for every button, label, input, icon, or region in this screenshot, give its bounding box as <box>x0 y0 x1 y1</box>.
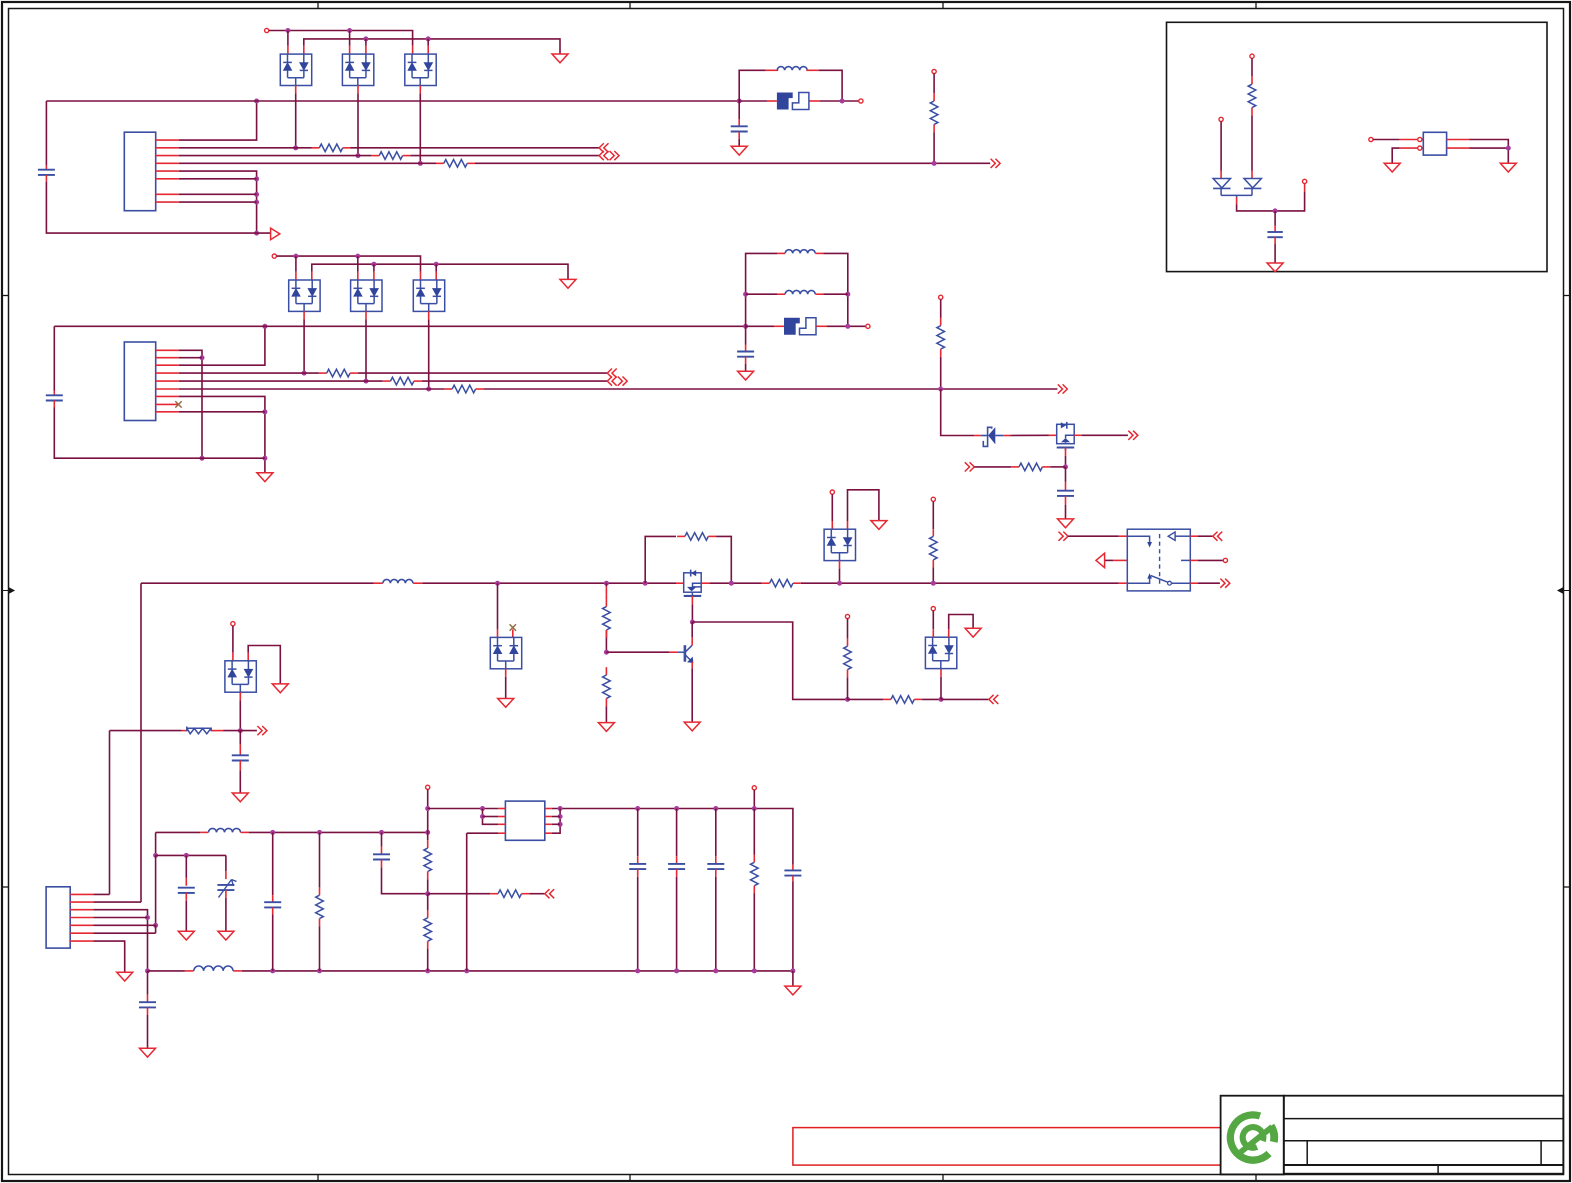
zone ticks <box>317 2 319 9</box>
pin stub <box>767 100 777 102</box>
wire <box>140 583 142 902</box>
junction <box>425 806 430 811</box>
wire <box>605 630 607 652</box>
wire <box>606 651 669 653</box>
wire net 3v3 <box>552 809 793 865</box>
wire <box>427 879 429 893</box>
wire <box>179 101 257 140</box>
wire <box>357 93 359 155</box>
wire <box>427 949 429 971</box>
wire <box>46 182 270 233</box>
wire <box>483 816 499 818</box>
wire <box>715 809 717 857</box>
wire <box>225 855 227 871</box>
wire <box>93 941 124 972</box>
wire main bus <box>141 582 374 584</box>
wire <box>277 256 421 272</box>
port <box>607 377 616 386</box>
pin stub J1 pin1 <box>156 139 179 141</box>
wire <box>745 326 747 344</box>
capacitor C bank <box>629 863 646 865</box>
wire <box>1251 58 1253 76</box>
wire <box>155 925 157 933</box>
inductor L1 <box>777 67 807 71</box>
pin stub <box>1274 226 1276 232</box>
pin stub <box>715 869 717 877</box>
wire <box>109 731 111 895</box>
resistor R3 <box>436 162 444 164</box>
pin stub J3 pin4 <box>70 917 93 919</box>
pin stub <box>365 46 367 54</box>
pin <box>1219 117 1223 121</box>
junction <box>145 915 150 920</box>
wire net A1b <box>351 147 600 149</box>
pin stub <box>295 272 297 280</box>
pin stub <box>1190 559 1198 561</box>
wire <box>269 31 413 46</box>
port <box>618 377 628 386</box>
port <box>607 369 616 378</box>
port <box>1128 431 1138 440</box>
junction <box>635 968 640 973</box>
junction <box>379 830 384 835</box>
pin stub J2 pin9 <box>156 411 179 413</box>
wire <box>272 832 274 895</box>
pin <box>931 497 935 501</box>
wire <box>1274 244 1276 263</box>
pin stub <box>147 1007 149 1015</box>
pin stub <box>239 692 241 700</box>
wire <box>739 70 766 101</box>
wire <box>179 171 257 233</box>
wire net line0B <box>54 325 745 327</box>
pin stub <box>200 831 208 833</box>
pin stub <box>847 638 849 646</box>
wire <box>848 490 879 521</box>
pin stub <box>420 272 422 280</box>
wire <box>1198 559 1223 561</box>
pin stub <box>792 865 794 871</box>
wire <box>1220 122 1222 171</box>
connector J1 <box>124 132 155 211</box>
junction <box>837 581 842 586</box>
pin stub <box>1119 535 1128 537</box>
pin stub <box>247 653 249 661</box>
wire <box>1198 535 1212 537</box>
junction <box>1273 208 1278 213</box>
resistor R21 <box>753 855 755 863</box>
wire <box>637 809 639 857</box>
junction <box>270 968 275 973</box>
wire <box>792 881 794 971</box>
pin stub <box>357 272 359 280</box>
wire <box>357 256 359 272</box>
wire <box>497 583 499 629</box>
capacitor C9 <box>139 1001 156 1003</box>
resistor R2 <box>371 155 379 157</box>
pin stub <box>1003 435 1010 437</box>
ground <box>684 722 700 731</box>
pin <box>1303 179 1307 183</box>
wire <box>692 622 847 699</box>
ground <box>731 146 747 155</box>
pin circle <box>1418 146 1422 150</box>
pin stub <box>365 311 367 319</box>
wire <box>295 93 297 147</box>
wire <box>147 971 149 995</box>
junction <box>931 581 936 586</box>
resistor R20 <box>490 893 498 895</box>
junction <box>254 192 259 197</box>
wire <box>1274 211 1276 226</box>
wire <box>45 101 47 165</box>
npn Q3 <box>677 651 685 653</box>
junction <box>425 891 430 896</box>
pin stub <box>806 69 818 71</box>
wire <box>932 611 934 630</box>
capacitor C bank <box>668 863 685 865</box>
pin stub <box>1065 447 1067 456</box>
pin stub J2 pin7 <box>156 395 179 397</box>
pin <box>866 324 870 328</box>
ground <box>871 521 887 530</box>
junction <box>355 254 360 259</box>
wire <box>1050 466 1065 468</box>
pin stub <box>381 847 383 855</box>
resistor R1 <box>312 147 320 149</box>
wire <box>54 408 265 459</box>
junction <box>270 830 275 835</box>
connector J3 <box>46 887 70 948</box>
capacitor C13 <box>1267 231 1282 233</box>
wire <box>676 809 678 857</box>
wire <box>419 93 421 163</box>
junction <box>371 262 376 267</box>
pin stub <box>413 582 422 584</box>
pin stub <box>53 401 55 408</box>
pin stub <box>847 521 849 529</box>
port <box>1059 532 1069 541</box>
ground <box>965 628 981 637</box>
pin stub <box>211 730 223 732</box>
wire <box>949 615 973 630</box>
inductor L2 <box>785 250 815 254</box>
pin stub <box>738 119 740 126</box>
junction <box>200 456 205 461</box>
wire <box>637 877 639 971</box>
junction <box>425 830 430 835</box>
pin stub <box>1447 147 1470 149</box>
wire <box>941 389 975 436</box>
wire <box>179 193 257 195</box>
wire <box>93 901 141 903</box>
junction <box>254 99 259 104</box>
wire <box>1082 434 1128 436</box>
wire <box>1068 535 1118 537</box>
pin stub U1 <box>545 832 552 834</box>
wire <box>483 809 499 825</box>
junction <box>480 814 485 819</box>
wire <box>691 668 693 722</box>
resistor R19 <box>427 910 429 918</box>
wire <box>933 74 935 94</box>
pin stub J3 pin7 <box>70 940 93 942</box>
wire <box>745 364 747 372</box>
wire <box>428 808 499 810</box>
pin stub J1 pin6 <box>156 178 179 180</box>
capacitor C2 <box>731 125 748 127</box>
pin <box>231 622 235 626</box>
junction <box>302 371 307 376</box>
wire <box>427 789 429 832</box>
ic U1 <box>505 801 544 840</box>
pin stub <box>357 86 359 94</box>
ground <box>140 1048 156 1057</box>
diode pack D11 <box>925 637 956 668</box>
wire <box>427 894 429 910</box>
resistor R9 <box>1011 466 1019 468</box>
wire rail1 <box>156 831 201 833</box>
pin stub J1 pin4 <box>156 162 179 164</box>
pin stub <box>428 311 430 319</box>
pin stub <box>701 582 709 584</box>
junction <box>558 822 563 827</box>
wire rail2 <box>148 970 185 972</box>
junction <box>752 806 757 811</box>
junction <box>356 153 361 158</box>
pin stub <box>412 46 414 54</box>
diode pack D2 <box>342 54 373 85</box>
pin stub <box>637 869 639 877</box>
pin stub <box>225 890 227 898</box>
ground <box>598 723 614 732</box>
wire <box>239 731 241 745</box>
resistor R17 <box>319 887 321 895</box>
wire net B2b <box>422 380 608 382</box>
pin stub <box>816 325 827 327</box>
pin stub J2 pin5 <box>156 380 179 382</box>
junction <box>254 176 259 181</box>
inductor L5 <box>209 828 241 832</box>
junction <box>254 231 259 236</box>
pin <box>1223 558 1227 562</box>
wire <box>940 357 942 389</box>
pin stub <box>272 907 274 914</box>
junction <box>729 581 734 586</box>
junction <box>743 324 748 329</box>
wire <box>155 832 157 855</box>
pin stub <box>233 970 242 972</box>
pin stub <box>45 175 47 182</box>
wire <box>1065 467 1067 482</box>
wire <box>428 319 430 389</box>
ground <box>1267 263 1283 272</box>
pin stub <box>1190 582 1198 584</box>
wire <box>427 832 429 840</box>
junction <box>363 36 368 41</box>
ic U2 <box>1423 132 1446 155</box>
pin stub <box>1190 535 1198 537</box>
junction <box>254 200 259 205</box>
junction <box>845 697 850 702</box>
ground <box>178 931 194 940</box>
wire <box>847 619 849 639</box>
port <box>599 151 608 160</box>
wire <box>605 583 607 587</box>
pin stub <box>691 662 693 668</box>
wire <box>93 924 155 926</box>
pin stub <box>745 357 747 364</box>
wire <box>435 264 437 271</box>
resistor R6 <box>383 380 391 382</box>
pin stub J1 pin2 <box>156 147 179 149</box>
wire <box>823 253 847 326</box>
pin stub <box>272 895 274 902</box>
ground <box>1384 163 1400 172</box>
wire <box>1065 456 1067 467</box>
junction <box>464 968 469 973</box>
title block grid <box>1284 1096 1564 1174</box>
ground <box>785 986 801 995</box>
resistor R12 <box>762 582 770 584</box>
junction <box>932 161 937 166</box>
no-connect X <box>175 401 181 407</box>
pin stub U1 <box>545 823 552 825</box>
pin stub <box>1304 184 1306 192</box>
wire <box>1392 148 1400 163</box>
wire <box>93 910 147 971</box>
junction <box>426 387 431 392</box>
pin stub <box>1400 147 1418 149</box>
junction <box>184 853 189 858</box>
pin stub <box>239 761 241 771</box>
junction <box>262 409 267 414</box>
ground <box>560 279 576 288</box>
wire <box>505 677 507 699</box>
pin stub <box>419 86 421 94</box>
capacitor C7 <box>178 887 195 889</box>
pin stub <box>1065 496 1067 505</box>
wire net B1b <box>358 372 607 374</box>
junction <box>347 28 352 33</box>
wire <box>753 809 755 855</box>
wire <box>753 894 755 971</box>
wire net B3 <box>179 388 445 390</box>
junction <box>262 324 267 329</box>
pin stub <box>427 46 429 54</box>
wire <box>365 39 367 46</box>
wire <box>179 326 265 365</box>
ground <box>218 931 234 940</box>
pin stub <box>303 46 305 54</box>
pin stub <box>1113 559 1127 561</box>
junction <box>317 968 322 973</box>
junction <box>604 581 609 586</box>
port <box>989 695 998 704</box>
wire rail2b <box>242 970 793 972</box>
junction <box>752 968 757 973</box>
diode pack D10 <box>225 661 256 692</box>
no-connect X <box>510 624 516 630</box>
pin stub J3 pin2 <box>70 901 93 903</box>
pin <box>1250 54 1254 58</box>
wire <box>179 178 257 180</box>
junction <box>434 262 439 267</box>
wire <box>373 264 375 271</box>
diode pack D8 <box>824 529 855 560</box>
port out <box>271 228 280 240</box>
wire <box>319 926 321 971</box>
pin stub <box>745 345 747 352</box>
pin stub <box>676 856 678 864</box>
pin stub <box>1220 171 1222 179</box>
ground <box>552 54 568 63</box>
junction <box>293 254 298 259</box>
wire rail1b <box>249 831 428 833</box>
fuse F1 <box>777 93 793 110</box>
wire net A2b <box>410 155 599 157</box>
wire net A3b <box>475 162 990 164</box>
ground <box>117 972 133 981</box>
pin stub J1 pin8 <box>156 201 179 203</box>
pin stub <box>974 435 981 437</box>
wire <box>605 706 607 722</box>
wire <box>738 139 740 147</box>
wire <box>1373 139 1400 141</box>
wire net line0A <box>46 100 739 102</box>
wire <box>827 325 866 327</box>
pin stub U1 <box>498 832 505 834</box>
pin stub <box>676 582 684 584</box>
wire <box>93 917 147 919</box>
junction <box>938 387 943 392</box>
logo <box>1227 1111 1272 1164</box>
wire net B1 <box>179 372 319 374</box>
wire <box>691 604 693 622</box>
junction <box>845 292 850 297</box>
pin stub <box>1065 482 1067 491</box>
pin <box>752 786 756 790</box>
wire <box>349 31 351 46</box>
junction <box>317 830 322 835</box>
pin stub <box>1251 171 1253 179</box>
pin stub <box>1049 434 1057 436</box>
junction <box>674 968 679 973</box>
diode pack D6 <box>413 280 444 311</box>
pin stub U1 <box>545 816 552 818</box>
pin <box>426 785 430 789</box>
pin stub <box>1236 197 1238 205</box>
pin stub <box>809 100 820 102</box>
pin stub <box>147 995 149 1003</box>
wire <box>1470 140 1509 164</box>
resistor R13 <box>605 587 607 595</box>
wire <box>93 893 109 895</box>
wire <box>839 569 841 584</box>
wire net B2 <box>179 380 383 382</box>
pin stub J1 pin3 <box>156 155 179 157</box>
wire <box>1065 505 1067 519</box>
wire <box>53 326 55 390</box>
pin stub <box>185 878 187 886</box>
diode pack D1 <box>280 54 311 85</box>
diode pack D5 <box>351 280 382 311</box>
resistor R15 <box>844 646 852 669</box>
wire net B3b <box>483 388 1057 390</box>
title block logo cell <box>1221 1096 1284 1175</box>
pin stub <box>505 669 507 677</box>
pin stub <box>777 293 785 295</box>
